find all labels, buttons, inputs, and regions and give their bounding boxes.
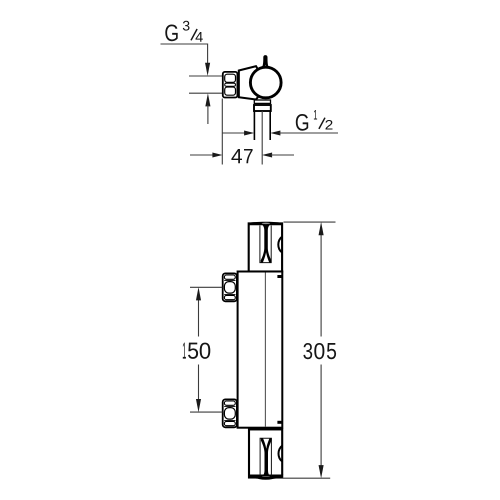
blade mirrored [261, 438, 272, 476]
lower union nut (front view) [223, 399, 237, 427]
extension line bottom [283, 477, 331, 479]
inner groove [260, 438, 272, 475]
bottom handle block [248, 429, 283, 479]
extension line lower nut [190, 411, 222, 413]
extension line top [284, 221, 336, 223]
handle stem (top view) [261, 55, 269, 68]
arrow up to thread bottom [205, 93, 210, 106]
arrow down to thread top [205, 63, 210, 76]
handle knob circle (top view) [250, 67, 281, 98]
extension line thread top [189, 75, 223, 77]
cone-nut seam [238, 71, 240, 98]
blade [261, 225, 272, 263]
leader line G 3/4 [161, 44, 208, 63]
body inner line [264, 273, 266, 428]
collar band 2 [254, 105, 271, 111]
body cone (top view) [239, 66, 262, 99]
top cap [248, 222, 283, 226]
right lens top handle [278, 237, 282, 253]
upper tick [277, 275, 281, 278]
dim line [320, 234, 322, 466]
arrow up [319, 222, 324, 235]
dim line [198, 299, 200, 401]
dimension 150 [183, 287, 223, 412]
collar band 1 [254, 100, 270, 103]
bottom cap [248, 475, 283, 480]
label G 3/4 [165, 21, 203, 42]
extension line (nut face) vertical [221, 99, 223, 165]
extension line upper nut [190, 286, 222, 288]
main body (front view) [238, 272, 283, 428]
arrow down [319, 465, 324, 478]
right lens bottom handle [279, 446, 283, 462]
label G 1/2 [296, 110, 333, 131]
dimension 305 [283, 222, 337, 479]
extension line thread bottom [189, 92, 223, 94]
G 1/2 arrows row [222, 132, 245, 134]
lower tick [277, 421, 281, 424]
union nut (top view) [223, 72, 238, 98]
pipe (top view) [254, 111, 270, 140]
arrow up [196, 287, 201, 300]
inner groove [259, 226, 271, 263]
upper union nut (front view) [223, 273, 237, 301]
dimension 47 row [190, 154, 214, 156]
top handle block [248, 222, 283, 272]
pipe centerline [261, 111, 263, 165]
arrow down [196, 399, 201, 412]
